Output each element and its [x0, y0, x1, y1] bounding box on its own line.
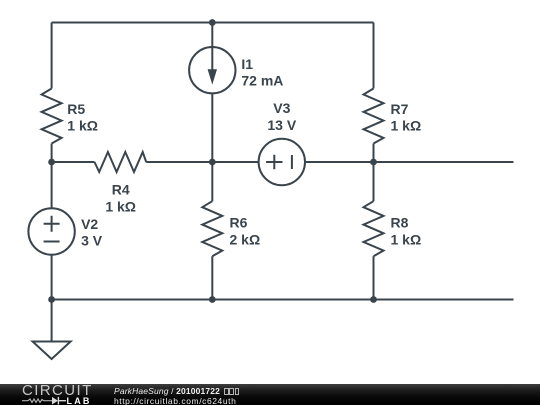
wire ground lead — [51, 300, 53, 342]
wire left rail upper lead — [51, 23, 53, 89]
svg-text:R6: R6 — [230, 215, 248, 231]
svg-text:1 kΩ: 1 kΩ — [391, 118, 422, 134]
wire middle row left segment — [52, 161, 95, 163]
logo LAB wordmark — [67, 396, 92, 405]
wire right rail upper lead — [373, 23, 375, 89]
node middle row left junction — [48, 159, 55, 166]
footer bar — [0, 384, 540, 405]
node bottom center junction — [209, 296, 216, 303]
wire right rail R8 top lead — [373, 162, 375, 201]
resistor R8 — [364, 201, 384, 256]
wire right rail below R7 — [373, 144, 375, 163]
svg-text:1 kΩ: 1 kΩ — [391, 231, 422, 247]
svg-text:R8: R8 — [391, 215, 409, 231]
wire left rail V2 top lead — [51, 162, 53, 209]
node bottom right junction — [370, 296, 377, 303]
svg-text:R7: R7 — [391, 101, 409, 117]
svg-text:I1: I1 — [241, 56, 253, 72]
svg-text:1 kΩ: 1 kΩ — [67, 118, 98, 134]
ground — [33, 342, 71, 360]
wire middle rail R6 top lead — [211, 162, 213, 201]
resistor R4 — [95, 152, 147, 172]
footer url text — [114, 396, 236, 405]
resistor R5 — [42, 89, 62, 144]
node bottom left junction — [48, 296, 55, 303]
resistor R6 — [202, 201, 222, 256]
svg-text:13 V: 13 V — [267, 117, 296, 133]
wire left rail V2 bottom lead — [51, 255, 53, 300]
logo schematic squiggle — [0, 384, 110, 405]
svg-text:1 kΩ: 1 kΩ — [105, 198, 136, 214]
wire right rail bottom lead — [373, 256, 375, 299]
svg-text:V3: V3 — [273, 100, 290, 116]
svg-text:2 kΩ: 2 kΩ — [230, 231, 261, 247]
svg-text:R4: R4 — [112, 182, 130, 198]
wire middle rail below I1 — [211, 93, 213, 162]
svg-text:72 mA: 72 mA — [241, 73, 283, 89]
node middle row center junction — [209, 159, 216, 166]
wire middle rail top lead — [211, 23, 213, 71]
node middle row right junction — [370, 159, 377, 166]
voltage source V3 — [259, 139, 305, 185]
svg-text:V2: V2 — [81, 216, 98, 232]
wire middle rail bottom lead — [211, 256, 213, 299]
current source I1 — [189, 47, 235, 93]
svg-text:3 V: 3 V — [81, 233, 103, 249]
wire middle row right segment — [305, 161, 514, 163]
logo CIRCUIT wordmark — [22, 382, 93, 399]
wire top rail — [52, 22, 374, 24]
node top center junction — [209, 19, 216, 26]
wire left rail below R5 — [51, 144, 53, 163]
footer attribution text — [114, 386, 239, 396]
wire bottom rail — [52, 299, 514, 301]
wire middle row center segment — [146, 161, 259, 163]
resistor R7 — [364, 89, 384, 144]
svg-text:R5: R5 — [67, 101, 85, 117]
voltage source V2 — [28, 208, 74, 254]
